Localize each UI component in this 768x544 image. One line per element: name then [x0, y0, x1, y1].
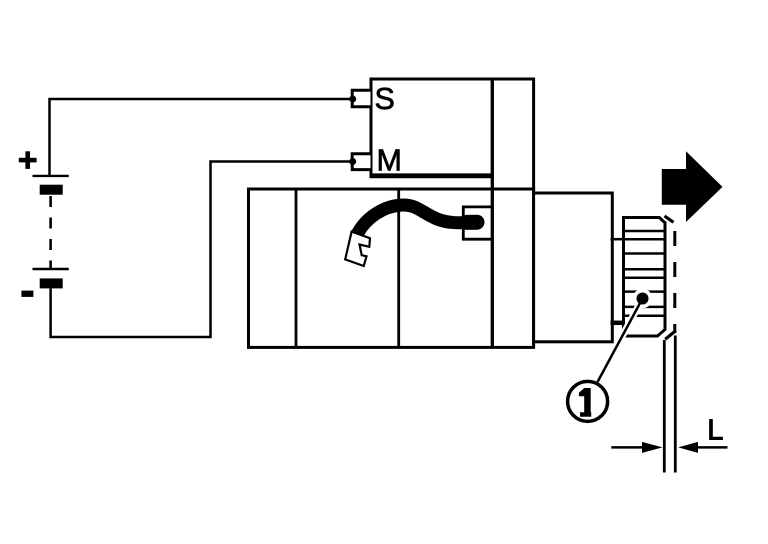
- svg-text:L: L: [707, 415, 723, 447]
- svg-text:M: M: [377, 144, 402, 178]
- svg-text:S: S: [375, 82, 395, 116]
